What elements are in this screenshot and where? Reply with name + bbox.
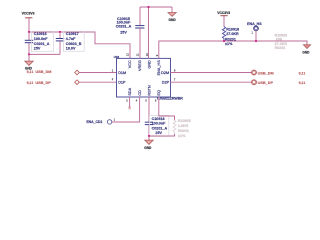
svg-text:C10918: C10918 xyxy=(152,117,165,121)
junction node rail / C10916 / VCC stub xyxy=(28,31,30,33)
svg-text:10.0V: 10.0V xyxy=(66,47,76,51)
wire VCC3V3 stub to R10918 xyxy=(223,16,225,27)
svg-text:9,11: 9,11 xyxy=(27,81,34,85)
wire bottom rail joining capacitor bottoms xyxy=(29,53,60,55)
svg-text:9,11: 9,11 xyxy=(299,71,306,75)
svg-text:R10925: R10925 xyxy=(178,119,191,123)
svg-text:USB_DM: USB_DM xyxy=(35,70,51,74)
svg-text:TUSB212RWBR: TUSB212RWBR xyxy=(156,96,183,100)
svg-text:C0603_B: C0603_B xyxy=(66,42,82,46)
wire IC pin 3 SDA stub xyxy=(129,97,131,108)
port diamond USB_DM xyxy=(75,70,80,75)
svg-text:12: 12 xyxy=(126,53,130,56)
value label R10925 1.0KR R0201 ±1% (faded) xyxy=(178,119,191,138)
svg-text:ENA_HS: ENA_HS xyxy=(247,22,262,26)
wire IC pin 7 D2P to right port xyxy=(171,81,252,83)
svg-text:EQ: EQ xyxy=(157,90,161,96)
svg-text:R10918: R10918 xyxy=(226,27,239,31)
svg-text:USB_DP: USB_DP xyxy=(258,81,274,85)
svg-text:27.0KR: 27.0KR xyxy=(226,32,239,36)
wire VCC3V3 stub down to rail xyxy=(28,18,30,32)
svg-text:D2M: D2M xyxy=(161,71,169,75)
ground (left) xyxy=(25,54,33,70)
junction node C10916 bottom / ground xyxy=(28,53,30,55)
svg-text:4.7uF: 4.7uF xyxy=(66,37,76,41)
capacitor C10915 xyxy=(135,7,144,58)
capacitor C10916 xyxy=(25,32,33,54)
svg-text:D2P: D2P xyxy=(162,81,170,85)
port circle-diamond USB_DM (right) xyxy=(252,70,257,75)
junction node R10918 / ENA_HS wire xyxy=(223,40,225,42)
resistor R10925 (DNP, faded) xyxy=(173,120,176,133)
no-connect X on pin 3 xyxy=(128,107,130,109)
wire ENA_HS port stub xyxy=(255,31,257,41)
svg-text:DNI: DNI xyxy=(276,37,282,41)
wire IC pin 6 EQ to R10925 xyxy=(159,97,175,120)
wire USB_DM to IC pin 1 D1M xyxy=(79,72,116,74)
svg-text:VREG: VREG xyxy=(138,60,142,71)
port circle ENA_HS xyxy=(254,26,259,31)
svg-text:C10916: C10916 xyxy=(34,32,47,36)
svg-text:GND: GND xyxy=(302,51,310,55)
svg-text:25V: 25V xyxy=(155,131,162,135)
value label C10916 100.0nF C0201_A 25V xyxy=(31,31,53,51)
svg-text:25V: 25V xyxy=(34,47,41,51)
svg-text:VCC3V3: VCC3V3 xyxy=(22,12,35,16)
svg-text:CD: CD xyxy=(138,90,142,96)
svg-text:RSTN: RSTN xyxy=(147,85,151,96)
svg-text:GND: GND xyxy=(169,18,177,22)
svg-text:9,11: 9,11 xyxy=(299,81,306,85)
net label 9,11 USB_DM (left) xyxy=(27,70,52,74)
wire ENA_CD1 to IC pin 4 CD xyxy=(112,97,140,122)
port diamond USB_DP xyxy=(75,80,80,85)
ground (top middle) xyxy=(168,7,176,22)
svg-text:R0201: R0201 xyxy=(178,129,189,133)
svg-text:ENA_CD1: ENA_CD1 xyxy=(86,120,102,124)
svg-text:9,11: 9,11 xyxy=(27,70,34,74)
ground (right) xyxy=(302,45,310,55)
svg-text:D1P: D1P xyxy=(118,81,126,85)
svg-text:C0201_A: C0201_A xyxy=(116,24,132,28)
svg-text:D1M: D1M xyxy=(118,71,126,75)
svg-text:±1%: ±1% xyxy=(178,134,186,138)
svg-text:SDA: SDA xyxy=(128,87,132,95)
resistor R10918 xyxy=(222,27,225,42)
svg-text:1.0KR: 1.0KR xyxy=(178,124,189,128)
svg-text:C0201_A: C0201_A xyxy=(152,126,168,130)
wire VCC3V3 rail to IC pin 12 VCC xyxy=(29,32,130,58)
svg-text:GND: GND xyxy=(147,60,151,69)
value label C10915 100.0nF C0201_A 25V xyxy=(116,17,132,35)
wire GND net top rail xyxy=(140,6,172,8)
wire IC pin 5 RSTN to C10918 xyxy=(148,97,150,122)
IC U33 body xyxy=(117,58,171,97)
wire IC pin 10 GND up to top rail xyxy=(148,7,150,58)
junction node C10918 / R10925 / ground xyxy=(148,135,150,137)
power symbol VCC3V3 (top left) xyxy=(22,12,35,18)
svg-text:25V: 25V xyxy=(120,31,127,35)
junction node rail / C10917 xyxy=(59,31,61,33)
wire IC pin 8 D2M to right port xyxy=(171,72,252,74)
ground (bottom middle) xyxy=(144,136,153,150)
svg-text:VCC3V3: VCC3V3 xyxy=(217,11,230,15)
wire R10925 bottom to ground junction xyxy=(149,134,175,136)
svg-text:VCC: VCC xyxy=(128,60,132,68)
svg-text:U33: U33 xyxy=(114,55,120,59)
port circle ENA_CD1 xyxy=(107,120,111,124)
svg-text:100.0nF: 100.0nF xyxy=(152,122,166,126)
value label R10918 27.0KR R0201 ±1% xyxy=(225,27,239,46)
svg-text:±1%: ±1% xyxy=(225,42,233,46)
capacitor C10918 xyxy=(145,122,153,136)
port circle-diamond USB_DP (right) xyxy=(252,80,257,85)
svg-text:100.0nF: 100.0nF xyxy=(34,37,48,41)
resistor R10920 (DNP, faded) value label R10920 DNI 27.0KR R0201 xyxy=(275,33,288,50)
net label 9,11 USB_DP (left) xyxy=(27,81,52,85)
junction node top rail / GND pin xyxy=(147,6,149,8)
svg-text:C0201_A: C0201_A xyxy=(34,42,50,46)
svg-text:USB_DP: USB_DP xyxy=(35,81,51,85)
junction node ENA_HS port / wire xyxy=(255,40,257,42)
svg-text:C10917: C10917 xyxy=(66,32,79,36)
wire ENA_HS net from IC pin 9 to right ground xyxy=(159,41,307,58)
svg-text:USB_DM: USB_DM xyxy=(258,71,274,75)
capacitor C10917 xyxy=(56,32,64,54)
svg-text:GND: GND xyxy=(144,146,152,150)
value label C10918 100.0nF C0201_A 25V xyxy=(149,115,168,136)
value label C10917 4.7uF C0603_B 10.0V xyxy=(63,31,84,51)
svg-text:R0201: R0201 xyxy=(275,46,286,50)
power symbol VCC3V3 (top right) xyxy=(217,11,230,16)
wire USB_DP to IC pin 2 D1P xyxy=(79,81,116,83)
svg-text:ENA_HS: ENA_HS xyxy=(157,60,161,76)
svg-text:R0201: R0201 xyxy=(225,38,236,42)
